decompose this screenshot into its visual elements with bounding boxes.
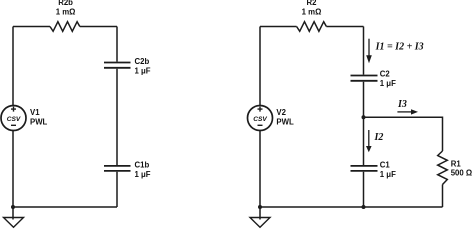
svg-text:I1 = I2 + I3: I1 = I2 + I3 bbox=[375, 42, 424, 53]
svg-text:I2: I2 bbox=[374, 132, 384, 143]
svg-text:1 μF: 1 μF bbox=[135, 67, 151, 76]
svg-text:R2b: R2b bbox=[58, 0, 73, 7]
svg-text:1 μF: 1 μF bbox=[380, 170, 396, 179]
svg-text:V1: V1 bbox=[30, 108, 40, 117]
svg-text:CSV: CSV bbox=[253, 116, 267, 123]
svg-text:C2: C2 bbox=[380, 70, 391, 79]
svg-text:1 mΩ: 1 mΩ bbox=[56, 7, 76, 16]
svg-text:1 μF: 1 μF bbox=[380, 79, 396, 88]
svg-text:500 Ω: 500 Ω bbox=[451, 169, 472, 178]
svg-text:PWL: PWL bbox=[276, 118, 294, 127]
svg-text:R2: R2 bbox=[307, 0, 318, 7]
svg-text:R1: R1 bbox=[451, 160, 462, 169]
svg-text:1 μF: 1 μF bbox=[135, 170, 151, 179]
svg-text:PWL: PWL bbox=[30, 118, 48, 127]
svg-text:C1b: C1b bbox=[135, 161, 150, 170]
svg-text:C1: C1 bbox=[380, 161, 391, 170]
svg-text:CSV: CSV bbox=[7, 116, 21, 123]
svg-text:C2b: C2b bbox=[135, 57, 150, 66]
svg-text:V2: V2 bbox=[276, 108, 286, 117]
svg-text:1 mΩ: 1 mΩ bbox=[302, 7, 322, 16]
svg-text:I3: I3 bbox=[397, 99, 407, 110]
